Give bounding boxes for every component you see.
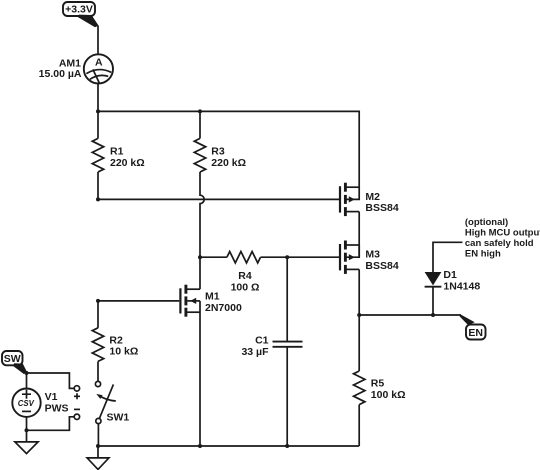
- node dot R1 bottom gate net: [96, 197, 100, 201]
- node dot V1 plus node: [25, 371, 29, 375]
- wire R3 bottom stub with hop over gate line: [200, 172, 204, 257]
- net label SW: [2, 351, 23, 365]
- label R3 220 kΩ: [211, 146, 246, 169]
- svg-text:M1: M1: [205, 290, 220, 302]
- node dot top of R1: [96, 109, 100, 113]
- wire D1 cathode to EN net: [432, 287, 434, 315]
- label AM1 15.00 µA: [39, 58, 82, 81]
- svg-text:SW1: SW1: [107, 412, 130, 424]
- pointer from +3.3V label to wire: [78, 15, 99, 28]
- svg-text:1N4148: 1N4148: [443, 280, 480, 292]
- svg-text:100 Ω: 100 Ω: [231, 282, 260, 294]
- wire +3.3V to ammeter AM1: [97, 26, 99, 55]
- net label +3.3V: [63, 2, 95, 16]
- wire R2 bottom to switch: [97, 361, 99, 381]
- diode D1 1N4148: [425, 272, 442, 287]
- wire gate net from R1 to M2 gate: [98, 198, 339, 200]
- wire R4 right to M3 gate: [261, 256, 340, 258]
- svg-text:(optional): (optional): [465, 217, 508, 228]
- pointer from SW label to node: [13, 363, 27, 374]
- wire R5 top stub: [358, 315, 360, 371]
- label R2 10 kΩ: [109, 334, 138, 357]
- ammeter AM1: [84, 54, 113, 83]
- svg-text:R2: R2: [109, 334, 123, 346]
- resistor R5: [354, 371, 365, 405]
- svg-text:220 kΩ: 220 kΩ: [110, 157, 145, 169]
- svg-text:R4: R4: [238, 270, 252, 282]
- label C1 33 µF: [241, 334, 269, 357]
- svg-text:10 kΩ: 10 kΩ: [109, 346, 138, 358]
- wire M1 gate lead: [98, 300, 179, 302]
- wire V1 top to plus terminal: [27, 373, 75, 388]
- terminal circle minus: [74, 414, 79, 419]
- node dot bottom rail M1 source: [198, 444, 202, 448]
- resistor R1: [92, 138, 103, 172]
- wire R5 bottom to bottom rail: [358, 405, 360, 446]
- transistor M1 2N7000: [180, 285, 200, 317]
- wire MCU output to D1: [433, 242, 462, 272]
- node dot R4 left junction: [198, 255, 202, 259]
- node dot C1 top junction: [285, 255, 289, 259]
- node dot M1 gate branch: [96, 299, 100, 303]
- svg-text:V1: V1: [45, 391, 58, 403]
- svg-text:R1: R1: [110, 146, 124, 158]
- resistor R2: [92, 328, 103, 362]
- svg-text:R3: R3: [211, 146, 225, 158]
- svg-text:33 µF: 33 µF: [241, 346, 269, 358]
- svg-text:D1: D1: [443, 269, 457, 281]
- wire M3 drain down to EN net: [358, 269, 360, 315]
- wire ammeter to top junction: [97, 84, 99, 112]
- note text optional MCU: [465, 217, 540, 260]
- wire R1 top stub: [97, 111, 99, 138]
- wire V1 bottom to minus terminal: [27, 417, 75, 431]
- terminal minus sign: [74, 408, 80, 410]
- svg-text:PWS: PWS: [45, 403, 69, 415]
- svg-text:EN: EN: [468, 327, 483, 339]
- svg-text:C1: C1: [255, 334, 269, 346]
- node dot V1 minus node: [25, 428, 29, 432]
- wire C1 top stub: [286, 257, 288, 341]
- wire R4 left stub: [200, 256, 227, 258]
- wire R3 top stub: [199, 111, 201, 138]
- svg-text:R5: R5: [371, 378, 385, 390]
- svg-text:M2: M2: [365, 191, 380, 203]
- wire C1 bottom stub: [286, 347, 288, 446]
- svg-text:SW: SW: [4, 353, 21, 365]
- terminal plus sign: [74, 393, 80, 399]
- svg-text:100 kΩ: 100 kΩ: [371, 389, 406, 401]
- label R1 220 kΩ: [110, 146, 145, 169]
- voltage source V1 PWS: [12, 389, 40, 417]
- svg-text:can safely hold: can safely hold: [465, 238, 534, 249]
- svg-text:CSV: CSV: [18, 399, 35, 408]
- transistor M2 BSS84: [340, 183, 359, 216]
- svg-text:M3: M3: [365, 249, 380, 261]
- node dot M3 drain R5 EN junction: [357, 313, 361, 317]
- capacitor C1: [273, 342, 303, 347]
- wire M2 drain to M3 source: [358, 212, 360, 258]
- wire V1 bottom stub: [26, 417, 28, 430]
- transistor M3 BSS84: [340, 241, 359, 274]
- node dot D1 junction: [431, 313, 435, 317]
- svg-text:EN high: EN high: [465, 249, 501, 260]
- wire vertical x200 from R4 junction to M1 drain: [199, 257, 201, 289]
- label M3 BSS84: [365, 249, 398, 272]
- switch SW1: [95, 381, 115, 423]
- wire EN net horizontal: [359, 314, 461, 316]
- svg-text:BSS84: BSS84: [365, 202, 398, 214]
- svg-text:A: A: [95, 57, 103, 69]
- node dot top of R3: [198, 109, 202, 113]
- net label EN: [466, 325, 486, 340]
- label R4 100 Ω: [231, 270, 260, 293]
- node dot bottom rail left: [96, 444, 100, 448]
- svg-text:+3.3V: +3.3V: [65, 4, 93, 16]
- svg-text:BSS84: BSS84: [365, 260, 398, 272]
- wire V1 node to source top: [26, 373, 28, 388]
- pointer to EN label: [460, 314, 475, 325]
- wire R1 bottom stub: [97, 172, 99, 199]
- resistor R4: [227, 252, 261, 263]
- wire bottom rail: [98, 445, 359, 447]
- label V1 PWS: [45, 391, 69, 414]
- wire top horizontal rail to M2 source: [98, 111, 359, 188]
- svg-text:High MCU output: High MCU output: [465, 228, 540, 239]
- svg-text:2N7000: 2N7000: [205, 302, 242, 314]
- wire M1 source down to bottom rail: [199, 301, 201, 446]
- label M1 2N7000: [205, 290, 242, 313]
- label D1 1N4148: [443, 269, 480, 292]
- svg-text:15.00 µA: 15.00 µA: [39, 68, 82, 80]
- resistor R3: [194, 138, 205, 172]
- wire R2 top stub: [97, 301, 99, 328]
- wire switch bottom to bottom rail: [97, 424, 99, 446]
- label R5 100 kΩ: [371, 378, 406, 401]
- svg-text:220 kΩ: 220 kΩ: [211, 157, 246, 169]
- terminal circle plus: [74, 386, 79, 391]
- label M2 BSS84: [365, 191, 398, 214]
- node dot bottom rail C1: [285, 444, 289, 448]
- ground under SW1: [87, 446, 109, 469]
- ground under V1: [15, 430, 38, 453]
